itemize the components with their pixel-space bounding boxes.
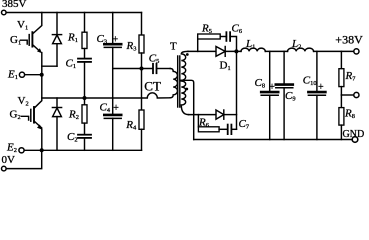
inductor L1: [241, 48, 265, 51]
wire switch line: [42, 93, 170, 98]
resistor R7: [340, 51, 342, 68]
wire C3 to C4: [112, 47, 114, 114]
diode FWD1 (across V1): [56, 13, 58, 35]
diode FWD2 (across V2): [56, 98, 58, 108]
svg-text:R7: R7: [345, 70, 357, 83]
terminal E2: [19, 148, 24, 153]
transistor Q1 emitter with arrow: [32, 45, 40, 52]
wire secondary center tap: [181, 80, 193, 139]
wire C2 to rail: [84, 138, 86, 150]
capacitor C1: [78, 58, 91, 60]
wire C5 to transformer: [157, 68, 171, 70]
capacitor C4: [104, 114, 121, 117]
wire bottom-left rail: [25, 149, 142, 151]
svg-text:+: +: [113, 103, 119, 114]
wire V2 emitter to rail: [41, 129, 43, 150]
diode D1: [216, 47, 225, 57]
wire V1 collector: [32, 13, 41, 35]
wire C7 to riser: [231, 128, 236, 130]
wire D2 to node riser: [224, 114, 237, 116]
wire mid line: [113, 68, 153, 70]
svg-text:V2: V2: [18, 95, 29, 108]
transformer secondary B: [181, 81, 188, 115]
capacitor C6: [225, 32, 227, 41]
svg-text:T: T: [170, 41, 177, 53]
junction D1 cathode: [234, 49, 238, 53]
junction E2 rail: [40, 148, 44, 152]
svg-text:E1: E1: [7, 68, 18, 81]
wire G1 lead: [21, 40, 28, 44]
wire V1 emitter to node: [41, 53, 43, 75]
svg-text:C6: C6: [232, 23, 243, 36]
terminal mid: [354, 92, 359, 97]
terminal 385V: [2, 10, 7, 15]
svg-text:G2: G2: [10, 108, 21, 121]
wire G2 lead: [22, 116, 29, 120]
svg-text:C10: C10: [303, 75, 317, 88]
transistor Q1 gate bar: [28, 35, 30, 46]
svg-text:D1: D1: [220, 60, 231, 73]
svg-text:R2: R2: [68, 109, 79, 122]
svg-text:C5: C5: [149, 53, 160, 66]
capacitor C5: [152, 64, 154, 73]
wire L2 to +38V: [314, 50, 354, 52]
svg-text:G1: G1: [10, 34, 21, 47]
wire C6 to node: [230, 37, 236, 52]
transformer polarity dot B: [185, 88, 188, 91]
svg-text:C4: C4: [100, 102, 111, 115]
diode D2: [216, 110, 224, 119]
svg-text:C1: C1: [66, 57, 77, 70]
transistor Q1 body bar: [31, 32, 33, 46]
transistor Q2 emitter with arrow: [34, 121, 42, 128]
resistor R2: [84, 98, 86, 105]
junction mid: [140, 67, 144, 71]
junction R2C2 top: [83, 96, 87, 100]
svg-text:R8: R8: [344, 108, 355, 121]
svg-text:C2: C2: [67, 131, 78, 144]
capacitor C8: [269, 51, 271, 91]
capacitor C7: [227, 125, 229, 135]
capacitor C3: [112, 13, 114, 44]
capacitor C9: [283, 51, 285, 84]
svg-text:+38V: +38V: [335, 33, 363, 47]
transistor Q2 gate bar: [30, 109, 32, 121]
wire D1 to L1: [225, 50, 241, 52]
transformer core: [177, 56, 179, 107]
svg-text:385V: 385V: [2, 0, 27, 10]
svg-text:CT: CT: [144, 78, 161, 93]
wire secondary bottom line: [189, 114, 217, 116]
resistor R8: [340, 95, 342, 108]
inductor L2: [288, 48, 314, 51]
svg-text:C7: C7: [239, 118, 250, 131]
junction V1e-V2c: [40, 73, 44, 77]
svg-text:C9: C9: [285, 90, 296, 103]
svg-text:R4: R4: [125, 119, 137, 132]
transformer polarity dot A: [186, 53, 189, 56]
wire top rail: [6, 12, 141, 14]
transistor Q2 body bar: [33, 107, 35, 123]
svg-text:0V: 0V: [2, 154, 16, 166]
wire bottom-right rail: [194, 139, 353, 141]
capacitor C10: [316, 51, 318, 91]
wire mid terminal: [341, 94, 353, 96]
resistor R6: [197, 115, 199, 127]
svg-text:R3: R3: [126, 40, 137, 53]
svg-text:C8: C8: [255, 77, 266, 90]
capacitor C2: [78, 134, 91, 136]
svg-text:V1: V1: [17, 19, 28, 32]
svg-text:R5: R5: [201, 23, 212, 36]
resistor R4: [141, 69, 143, 111]
wire output node riser: [236, 51, 238, 129]
svg-text:R1: R1: [67, 32, 78, 45]
wire secondary top line: [188, 50, 216, 52]
wire L1 to L2: [265, 50, 287, 52]
wire diode1 bottom to emitter: [42, 65, 57, 67]
wire 0V jog: [6, 150, 41, 168]
transformer secondary A: [181, 51, 188, 80]
terminal GND: [352, 137, 358, 143]
wire V2 collector: [34, 75, 42, 109]
terminal 0V: [2, 166, 7, 171]
wire E1 to node: [25, 74, 42, 76]
terminal +38V: [354, 49, 359, 54]
resistor R5: [197, 37, 199, 52]
resistor R3: [141, 13, 143, 36]
svg-text:E2: E2: [6, 142, 17, 155]
wire C4 to rail: [112, 118, 114, 150]
transformer primary winding: [170, 69, 177, 98]
resistor R1: [84, 13, 86, 33]
wire C1 to switch line: [84, 62, 86, 98]
terminal E1: [19, 72, 24, 77]
